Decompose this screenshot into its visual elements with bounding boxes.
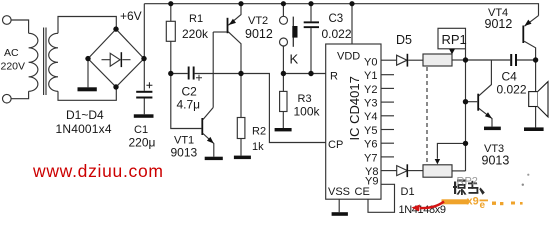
- svg-text:220μ: 220μ: [129, 136, 156, 150]
- svg-text:9012: 9012: [485, 17, 513, 31]
- svg-text:Y6: Y6: [364, 139, 377, 151]
- svg-text:C4: C4: [502, 70, 518, 84]
- svg-text:Y9: Y9: [365, 176, 378, 188]
- svg-text:K: K: [290, 52, 299, 67]
- svg-text:Y4: Y4: [364, 111, 377, 123]
- svg-text:Y2: Y2: [364, 84, 377, 96]
- svg-text:1k: 1k: [252, 141, 264, 153]
- svg-text:CE: CE: [355, 186, 370, 198]
- svg-text:RP1: RP1: [442, 32, 467, 47]
- svg-text:C1: C1: [134, 124, 148, 136]
- svg-text:D5: D5: [396, 33, 412, 47]
- svg-text:D1~D4: D1~D4: [66, 108, 104, 122]
- svg-text:D1: D1: [401, 186, 415, 198]
- svg-text:9012: 9012: [245, 27, 273, 41]
- svg-text:R: R: [330, 71, 338, 83]
- svg-text:R1: R1: [189, 13, 203, 25]
- svg-text:R2: R2: [252, 126, 266, 138]
- svg-text:Y3: Y3: [364, 98, 377, 110]
- svg-text:VSS: VSS: [328, 186, 350, 198]
- svg-text:C2: C2: [182, 85, 198, 99]
- svg-text:e: e: [480, 200, 486, 211]
- svg-text:Y1: Y1: [364, 70, 377, 82]
- svg-text:VT2: VT2: [248, 15, 268, 27]
- svg-text:1N4001x4: 1N4001x4: [56, 122, 112, 136]
- svg-text:AC: AC: [4, 47, 19, 59]
- svg-text:0.022: 0.022: [322, 27, 352, 41]
- svg-text:220k: 220k: [182, 27, 209, 41]
- svg-text:4.7μ: 4.7μ: [177, 98, 201, 112]
- svg-text:9013: 9013: [482, 153, 510, 167]
- svg-text:C3: C3: [329, 13, 344, 25]
- svg-text:100k: 100k: [294, 105, 321, 119]
- svg-text:9013: 9013: [171, 145, 198, 159]
- svg-text:220V: 220V: [1, 61, 26, 73]
- svg-text:RP2: RP2: [457, 176, 478, 188]
- svg-text:Y5: Y5: [364, 125, 377, 137]
- svg-text:CP: CP: [328, 139, 343, 151]
- svg-text:x9: x9: [467, 196, 479, 208]
- svg-text:IC CD4017: IC CD4017: [347, 76, 362, 140]
- svg-text:0.022: 0.022: [497, 83, 527, 97]
- svg-text:Y0: Y0: [364, 56, 377, 68]
- svg-text:R3: R3: [298, 93, 312, 105]
- svg-text:www.dziuu.com: www.dziuu.com: [32, 161, 163, 181]
- svg-text:VDD: VDD: [337, 51, 360, 63]
- svg-text:Y7: Y7: [364, 152, 377, 164]
- svg-text:+6V: +6V: [120, 9, 142, 23]
